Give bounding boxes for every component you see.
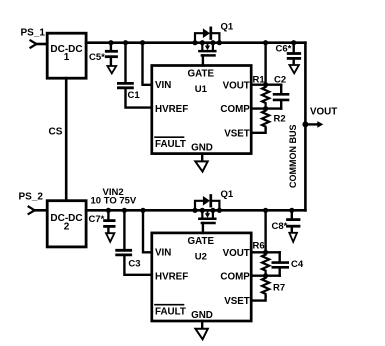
node VOUT tap xyxy=(302,121,323,128)
ground (C6) xyxy=(289,65,299,73)
svg-text:VIN: VIN xyxy=(155,80,171,91)
svg-text:PS_2: PS_2 xyxy=(19,191,44,202)
node drop to R1 xyxy=(263,40,268,85)
svg-text:VSET: VSET xyxy=(224,296,250,307)
svg-text:1: 1 xyxy=(64,52,70,63)
capacitor C6 xyxy=(288,40,300,64)
svg-text:COMP: COMP xyxy=(220,272,250,283)
svg-text:VOUT: VOUT xyxy=(310,107,337,118)
svg-text:GATE: GATE xyxy=(188,236,215,247)
capacitor C1 xyxy=(118,40,151,108)
svg-text:FAULT: FAULT xyxy=(155,139,186,150)
svg-text:CS: CS xyxy=(49,127,63,138)
svg-text:VIN: VIN xyxy=(155,248,171,259)
wire bottom bus xyxy=(86,209,305,212)
capacitor C7 xyxy=(105,208,115,233)
ground (C7) xyxy=(106,233,114,242)
svg-text:C4: C4 xyxy=(291,259,304,270)
capacitor C3 xyxy=(117,208,152,275)
resistor R2 xyxy=(262,109,269,129)
svg-text:HVREF: HVREF xyxy=(155,104,188,115)
svg-text:GND: GND xyxy=(191,142,213,153)
resistor R6 xyxy=(262,252,269,275)
wire COMP pin U1 xyxy=(251,106,281,111)
op-amp controller U2 xyxy=(152,233,251,321)
svg-text:GATE: GATE xyxy=(188,69,215,80)
wire VSET pin U1 xyxy=(251,129,265,133)
op-amp controller U1 xyxy=(152,66,251,154)
wire COMP pin U2 xyxy=(251,273,279,278)
wire VOUT pin U2 xyxy=(251,250,279,255)
DC-DC converter 1 xyxy=(47,33,86,78)
svg-text:C2: C2 xyxy=(274,75,286,86)
svg-text:U2: U2 xyxy=(195,251,207,262)
svg-text:R6: R6 xyxy=(253,241,265,252)
capacitor C5 xyxy=(106,40,116,65)
wire top bus xyxy=(86,41,305,44)
svg-text:10 TO 75V: 10 TO 75V xyxy=(91,195,137,206)
svg-text:GND: GND xyxy=(191,310,213,321)
svg-text:Q1: Q1 xyxy=(221,22,234,33)
connector J1 xyxy=(31,41,48,48)
svg-text:U1: U1 xyxy=(195,84,208,95)
svg-text:2: 2 xyxy=(64,221,70,232)
svg-text:VOUT: VOUT xyxy=(223,248,250,259)
wire VSET pin U2 xyxy=(251,296,265,300)
svg-text:VSET: VSET xyxy=(224,129,250,140)
svg-text:FAULT: FAULT xyxy=(155,307,186,318)
wire VOUT pin U1 xyxy=(251,82,281,87)
svg-text:HVREF: HVREF xyxy=(155,272,188,283)
wire VIN drop (bottom) xyxy=(140,208,151,253)
transistor Q1 (bottom) xyxy=(192,196,222,224)
svg-text:C8*: C8* xyxy=(272,221,288,232)
svg-text:R7: R7 xyxy=(273,283,285,294)
svg-text:R2: R2 xyxy=(274,114,286,125)
capacitor C4 xyxy=(273,252,288,275)
ground (U1 GND) xyxy=(195,154,207,172)
DC-DC converter 2 xyxy=(47,201,86,247)
wire GATE (bottom) xyxy=(202,223,204,233)
capacitor C2 xyxy=(274,85,288,109)
resistor R7 xyxy=(262,276,269,297)
svg-text:C3: C3 xyxy=(128,259,140,270)
wire GATE (top) xyxy=(202,55,204,65)
node drop to R6 xyxy=(263,208,268,253)
svg-text:COMP: COMP xyxy=(220,104,250,115)
wire CS xyxy=(65,78,68,200)
svg-text:C7*: C7* xyxy=(89,214,105,225)
svg-text:VOUT: VOUT xyxy=(223,80,250,91)
resistor R1 xyxy=(262,85,269,109)
connector J2 xyxy=(29,207,48,214)
ground (U2 GND) xyxy=(195,321,207,339)
ground (C8) xyxy=(289,233,297,242)
capacitor C8 xyxy=(288,208,300,233)
wire COMMON BUS xyxy=(304,43,307,211)
ground (C5) xyxy=(107,66,116,73)
wire VIN drop xyxy=(140,40,152,85)
svg-text:C1: C1 xyxy=(128,90,141,101)
svg-text:C6*: C6* xyxy=(276,44,292,55)
svg-text:COMMON BUS: COMMON BUS xyxy=(288,124,298,188)
svg-text:Q1: Q1 xyxy=(221,189,234,200)
transistor Q1 (top) xyxy=(192,28,222,56)
svg-text:C5*: C5* xyxy=(89,52,105,63)
svg-text:PS_1: PS_1 xyxy=(21,28,46,39)
svg-text:R1: R1 xyxy=(253,75,266,86)
